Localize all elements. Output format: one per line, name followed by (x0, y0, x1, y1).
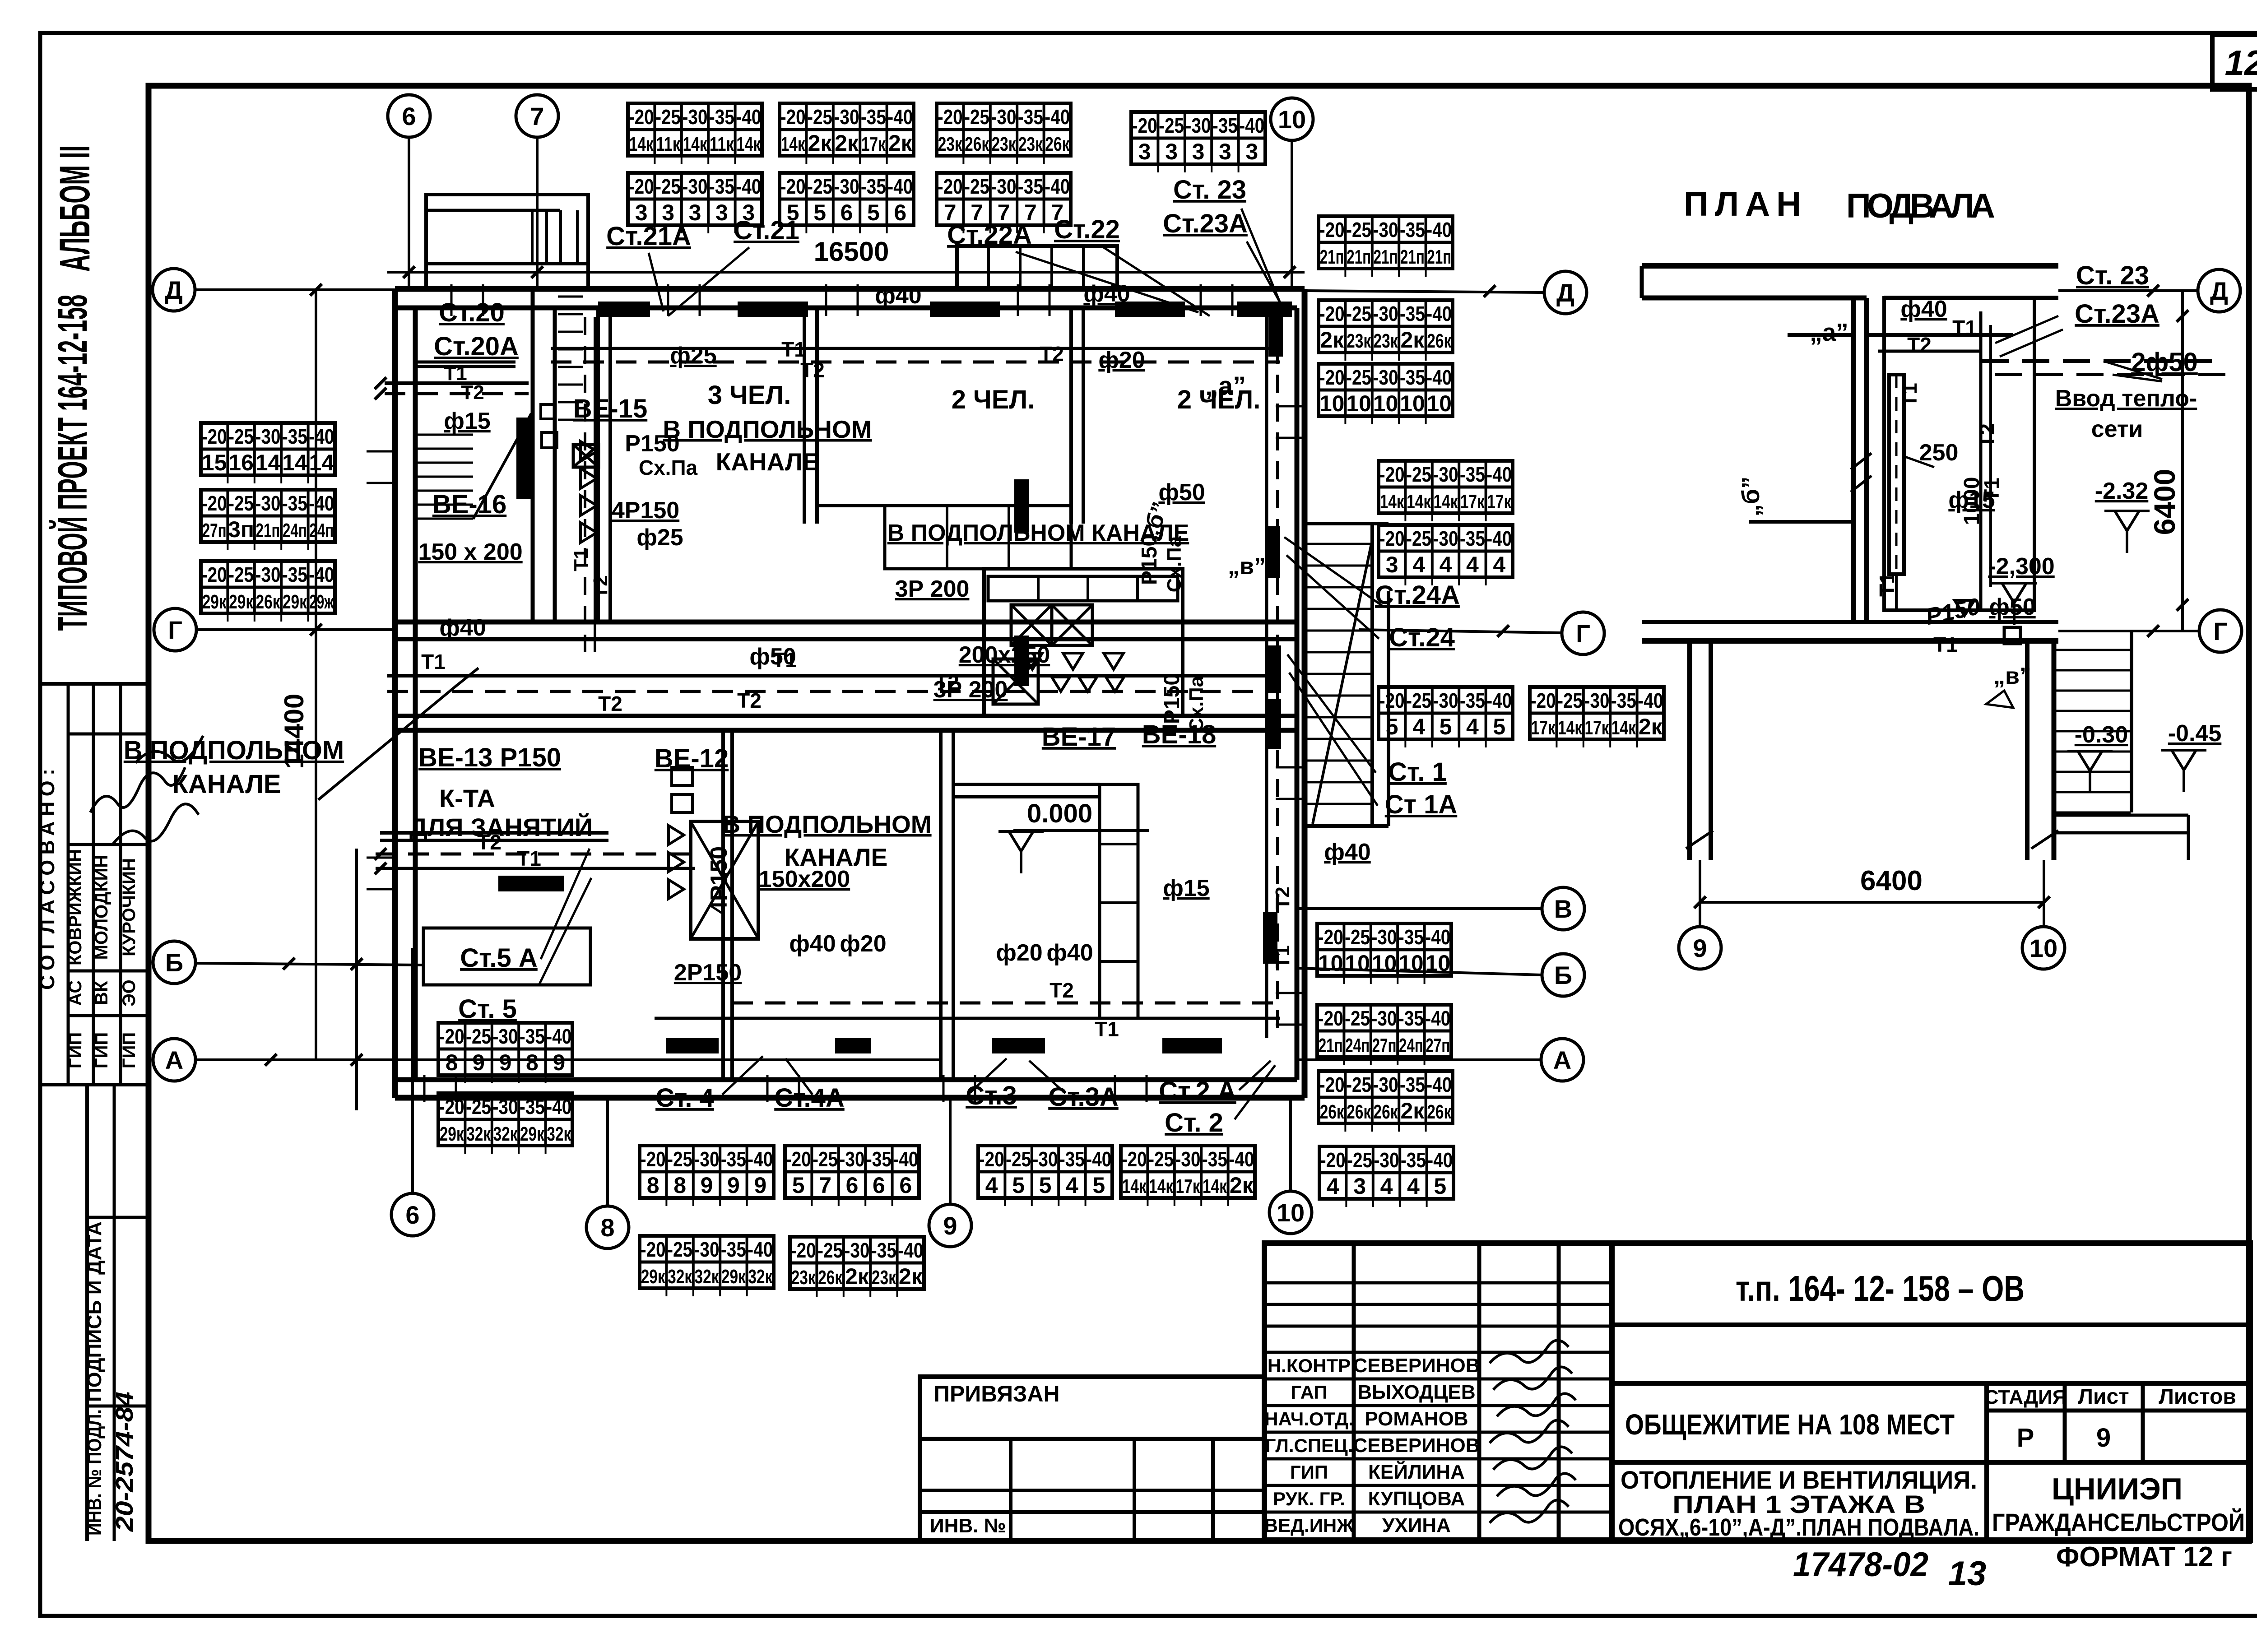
riser load table 14 at (3389,1522) (1530, 687, 1664, 747)
svg-text:9: 9 (1693, 934, 1707, 962)
wall: plan top exterior (axis Д) (395, 286, 1305, 292)
svg-text:10: 10 (1318, 951, 1343, 976)
svg-text:11к: 11к (710, 133, 734, 155)
svg-text:6: 6 (405, 1201, 419, 1229)
svg-text:3: 3 (1138, 139, 1151, 164)
svg-text:29к: 29к (202, 591, 227, 613)
svg-text:Т2: Т2 (590, 575, 612, 598)
svg-text:Ст.20: Ст.20 (439, 298, 505, 327)
svg-text:ПОДПИСЬ И ДАТА: ПОДПИСЬ И ДАТА (84, 1221, 106, 1402)
svg-text:ВЕД.ИНЖ: ВЕД.ИНЖ (1264, 1515, 1354, 1536)
window tick marks bottom wall (424, 1075, 1147, 1102)
svg-text:Т2: Т2 (1040, 342, 1064, 366)
svg-text:Ст. 5: Ст. 5 (458, 994, 517, 1024)
svg-text:9: 9 (727, 1173, 740, 1198)
svg-text:4: 4 (1412, 714, 1425, 739)
svg-text:Т1: Т1 (1933, 633, 1958, 656)
svg-text:8: 8 (600, 1213, 614, 1242)
svg-text:4: 4 (1412, 552, 1425, 577)
svg-text:ГИП: ГИП (92, 1032, 111, 1068)
svg-text:РУК. ГР.: РУК. ГР. (1273, 1488, 1345, 1509)
svg-text:„в”: „в” (1993, 663, 2031, 689)
svg-text:9: 9 (499, 1050, 512, 1075)
svg-text:ТИПОВОЙ ПРОЕКТ 164-12-158: ТИПОВОЙ ПРОЕКТ 164-12-158 (49, 295, 96, 631)
svg-text:17478-02: 17478-02 (1793, 1545, 1928, 1584)
title block left part: Привязан box (920, 1377, 1264, 1439)
svg-text:150х200: 150х200 (759, 866, 850, 892)
riser bars (black, vertical) (516, 418, 531, 499)
svg-text:сети: сети (2091, 416, 2143, 442)
svg-text:10: 10 (1400, 391, 1425, 416)
svg-text:ГЛ.СПЕЦ.: ГЛ.СПЕЦ. (1265, 1435, 1353, 1456)
svg-text:Т1: Т1 (570, 548, 592, 571)
svg-text:14к: 14к (1149, 1175, 1174, 1197)
riser load table 6 at (2075,383) (937, 173, 1071, 233)
svg-text:24п: 24п (1399, 1035, 1423, 1057)
wall: inner horizontal under 2чел rooms with closets (817, 504, 1071, 507)
svg-text:5: 5 (1092, 1173, 1105, 1198)
svg-text:29к: 29к (641, 1266, 666, 1288)
svg-text:4Р150: 4Р150 (612, 497, 679, 524)
svg-text:МОЛОДКИН: МОЛОДКИН (92, 855, 111, 960)
svg-text:6: 6 (899, 1173, 912, 1198)
svg-text:32к: 32к (493, 1123, 518, 1145)
svg-text:32к: 32к (668, 1266, 692, 1288)
svg-text:Ст.2 А: Ст.2 А (1159, 1077, 1236, 1106)
axis circle 6 (bottom) (391, 1193, 434, 1236)
svg-text:10: 10 (1319, 391, 1345, 416)
svg-text:Ст.21А: Ст.21А (606, 222, 691, 251)
svg-text:250: 250 (1919, 440, 1959, 466)
svg-text:32к: 32к (547, 1123, 571, 1145)
basement vertical dim 6400 (2181, 291, 2184, 631)
svg-text:Т2: Т2 (1975, 423, 1999, 448)
svg-text:3 ЧЕЛ.: 3 ЧЕЛ. (708, 381, 791, 410)
svg-text:14к: 14к (683, 133, 708, 155)
svg-text:АЛЬБОМ II: АЛЬБОМ II (51, 145, 99, 272)
svg-text:ВЕ-17: ВЕ-17 (1042, 722, 1116, 752)
title block outer box (1264, 1243, 2250, 1540)
svg-text:3п: 3п (228, 517, 254, 542)
pipe stub left top (Т1/Т2/ф15) (385, 381, 529, 385)
svg-text:3: 3 (715, 200, 728, 225)
svg-text:ВЕ-15: ВЕ-15 (573, 394, 647, 423)
svg-text:ф20: ф20 (840, 931, 886, 957)
svg-text:ОБЩЕЖИТИЕ НА 108 МЕСТ: ОБЩЕЖИТИЕ НА 108 МЕСТ (1625, 1408, 1955, 1441)
svg-text:Сх.Па: Сх.Па (1163, 536, 1185, 592)
svg-text:Т1: Т1 (772, 648, 797, 672)
stairwell hatch (left stair flights) (418, 435, 473, 519)
svg-text:КОВРИЖКИН: КОВРИЖКИН (65, 849, 85, 965)
sidebar bottom table grid (85, 1085, 89, 1541)
svg-text:Ст. 2: Ст. 2 (1165, 1108, 1223, 1137)
title block column lines (name table) (1352, 1243, 1356, 1540)
svg-text:В ПОДПОЛЬНОМ: В ПОДПОЛЬНОМ (663, 415, 872, 443)
svg-text:32к: 32к (748, 1266, 773, 1288)
svg-text:7: 7 (530, 102, 544, 130)
svg-text:9: 9 (472, 1050, 485, 1075)
svg-text:10: 10 (2029, 934, 2057, 962)
svg-text:„а”: „а” (1810, 318, 1848, 346)
svg-text:-2.32: -2.32 (2095, 478, 2149, 504)
svg-text:ф20: ф20 (1098, 347, 1145, 373)
axis circle 9 (bottom) (929, 1204, 971, 1247)
entry porch top-left (426, 195, 588, 264)
svg-text:ф25: ф25 (670, 343, 716, 369)
svg-text:8: 8 (673, 1173, 686, 1198)
svg-text:4: 4 (1066, 1173, 1078, 1198)
wall: basement lower-right (2025, 641, 2029, 860)
svg-text:14к: 14к (1122, 1175, 1147, 1197)
svg-text:21п: 21п (256, 520, 280, 542)
riser load table 11 at (3054,1021) (1379, 461, 1513, 521)
wall: lower-left room north (380, 831, 608, 835)
svg-text:А: А (1553, 1046, 1571, 1074)
svg-text:Т2: Т2 (1050, 979, 1074, 1002)
svg-text:Ст 1А: Ст 1А (1385, 790, 1458, 819)
basement stairs (2130, 630, 2133, 812)
svg-text:17к: 17к (1531, 717, 1556, 739)
svg-text:11к: 11к (656, 133, 681, 155)
svg-text:Т2: Т2 (477, 831, 502, 854)
svg-text:6: 6 (402, 102, 416, 130)
axis circle 9 (basement) (1679, 927, 1721, 969)
svg-text:27п: 27п (202, 520, 227, 542)
svg-text:5: 5 (813, 200, 826, 225)
svg-text:13: 13 (1948, 1555, 1987, 1593)
svg-text:ВЕ-12: ВЕ-12 (655, 744, 729, 773)
partition: lower rooms K-та/3чел (721, 730, 725, 1080)
svg-text:А: А (165, 1046, 183, 1074)
svg-text:14: 14 (282, 450, 307, 475)
partition: rooms 2чел/2чел (1069, 308, 1073, 524)
svg-text:26к: 26к (256, 591, 281, 613)
svg-text:Ст. 23: Ст. 23 (2076, 261, 2149, 290)
svg-text:27п: 27п (1372, 1035, 1397, 1057)
svg-text:14к: 14к (1558, 717, 1583, 739)
axis circle 10 (top) (1271, 98, 1313, 140)
title block doc number т.п.164-12-158-ОВ (1612, 1323, 2250, 1327)
svg-text:Т1: Т1 (1875, 572, 1899, 597)
closet wall lower (1100, 784, 1138, 1018)
svg-text:ЭО: ЭО (119, 979, 139, 1007)
wall: basement top (axis Д) (1642, 263, 2058, 269)
svg-text:17к: 17к (1460, 491, 1485, 513)
basement pipes (1867, 333, 2013, 337)
svg-text:АС: АС (65, 980, 85, 1006)
svg-text:16500: 16500 (814, 237, 889, 267)
svg-text:-0.30: -0.30 (2075, 722, 2128, 748)
svg-text:Ст.5 А: Ст.5 А (460, 943, 538, 973)
svg-text:Сх.Па: Сх.Па (639, 456, 698, 479)
radiator: left lower room (498, 876, 564, 891)
svg-text:ф40: ф40 (439, 615, 486, 641)
svg-text:2к: 2к (1400, 327, 1425, 353)
svg-text:В: В (1554, 895, 1572, 923)
riser load table 3 at (1727,229) (780, 103, 914, 164)
svg-text:Т1: Т1 (517, 847, 541, 870)
riser load table 20 at (2921,2373) (1319, 1071, 1453, 1132)
svg-text:4: 4 (1466, 552, 1479, 577)
basement room outline (1884, 298, 2034, 610)
svg-text:Ст.23А: Ст.23А (2075, 299, 2159, 329)
riser load table 21 at (2923,2540) (1319, 1146, 1454, 1207)
riser load table 25 at (1739,2538) (785, 1146, 919, 1206)
svg-text:Д: Д (2210, 277, 2228, 305)
dimension 14400 (left, vertical) (315, 290, 317, 1060)
svg-text:15: 15 (202, 450, 227, 475)
svg-text:32к: 32к (695, 1266, 720, 1288)
svg-text:ф40: ф40 (1324, 839, 1370, 865)
svg-text:23к: 23к (1374, 330, 1398, 352)
svg-text:Ст.23А: Ст.23А (1163, 209, 1248, 238)
svg-text:Т1: Т1 (1898, 383, 1921, 407)
svg-text:Ст.4А: Ст.4А (774, 1083, 844, 1113)
svg-text:6: 6 (841, 200, 853, 225)
svg-text:Т2: Т2 (1907, 333, 1932, 357)
svg-text:4Р150: 4Р150 (706, 846, 732, 914)
pipe T1 bottom rooms (655, 1017, 1280, 1020)
svg-text:ф40: ф40 (1046, 940, 1093, 966)
svg-text:-0.45: -0.45 (2168, 720, 2222, 747)
riser load table 22 at (971,2266) (438, 1023, 572, 1083)
svg-text:20-2574-84: 20-2574-84 (111, 1392, 138, 1532)
axis circle Б (right of plan) (1542, 954, 1584, 996)
leader lines bottom risers (722, 1056, 1275, 1119)
svg-text:Б: Б (165, 948, 183, 977)
svg-text:Т2: Т2 (800, 358, 825, 382)
svg-text:3: 3 (1245, 139, 1258, 164)
svg-text:„в”: „в” (1228, 553, 1266, 580)
riser load table 16 at (445,1085) (201, 490, 335, 550)
svg-text:ПОДВАЛА: ПОДВАЛА (1846, 187, 1995, 225)
svg-text:Д: Д (1556, 278, 1574, 307)
riser load table 12 at (3054,1163) (1379, 525, 1513, 585)
svg-text:4: 4 (1466, 714, 1479, 739)
svg-text:Т1: Т1 (1272, 945, 1294, 968)
svg-text:Ст. 1: Ст. 1 (1388, 757, 1447, 787)
vent unit 4Р150 cluster (lower left) (691, 821, 758, 939)
svg-text:2к: 2к (845, 1264, 869, 1289)
title block stage/sheet columns (1984, 1383, 1989, 1540)
svg-text:26к: 26к (1427, 330, 1452, 352)
svg-text:9: 9 (553, 1050, 565, 1075)
svg-text:ФОРМАТ 12 г: ФОРМАТ 12 г (2056, 1541, 2232, 1573)
svg-text:23к: 23к (872, 1267, 896, 1289)
svg-text:„б”: „б” (1737, 477, 1765, 517)
partition: lower rooms 3чел/2чел (939, 730, 943, 1080)
svg-text:2к: 2к (835, 130, 859, 156)
wall: basement lower-left (1687, 641, 1692, 860)
basement valve square (2004, 627, 2020, 644)
svg-text:4: 4 (1380, 1174, 1393, 1199)
pipe T1 corridor (387, 674, 1280, 678)
riser load table 17 at (445,1243) (201, 561, 335, 622)
witness line x=790 (355, 849, 358, 1110)
svg-text:4: 4 (1493, 552, 1505, 577)
leaders Ст.23 to risers (1241, 209, 1287, 316)
svg-text:Т1: Т1 (1952, 316, 1977, 339)
pipe T2 corridor (dashed) (387, 690, 1280, 693)
riser load table 10 at (2921,806) (1319, 364, 1453, 424)
wall: lower room top (2чел 0.000) (953, 783, 1100, 786)
svg-text:ВЕ-13 Р150: ВЕ-13 Р150 (418, 743, 561, 772)
svg-text:2к: 2к (808, 130, 832, 156)
wall: stairwell right side (531, 289, 535, 622)
svg-text:5: 5 (792, 1173, 805, 1198)
svg-text:5: 5 (1012, 1173, 1025, 1198)
svg-text:К-ТА: К-ТА (439, 784, 495, 812)
vent crosses (1011, 605, 1052, 645)
svg-text:т.п. 164- 12- 158 – ОВ: т.п. 164- 12- 158 – ОВ (1736, 1268, 2025, 1309)
svg-text:ф20: ф20 (996, 940, 1042, 966)
svg-text:2Р150: 2Р150 (674, 960, 742, 986)
svg-text:21п: 21п (1400, 246, 1425, 268)
svg-text:200х250: 200х250 (959, 642, 1050, 668)
svg-text:6: 6 (894, 200, 906, 225)
svg-text:Р: Р (2017, 1423, 2034, 1452)
svg-text:14к: 14к (1434, 491, 1458, 513)
axis circle Г (basement right) (2058, 630, 2199, 632)
radiators: top wall (598, 302, 650, 317)
svg-text:„а”: „а” (1205, 371, 1246, 401)
window tick marks left/right walls (367, 406, 1302, 1025)
svg-text:24п: 24п (283, 520, 307, 542)
svg-text:Д: Д (165, 276, 183, 304)
svg-text:ф40: ф40 (875, 283, 921, 309)
leader lines to Ст.21/22 risers (649, 247, 749, 316)
leader lines Ст.24/Ст.1 (1284, 537, 1382, 806)
title block left part lower grid (920, 1439, 1264, 1540)
wall: vestibule partition (596, 308, 600, 622)
svg-text:ф15: ф15 (1163, 875, 1209, 901)
svg-text:Г: Г (1576, 619, 1590, 648)
sidebar approval table grid (67, 684, 70, 1085)
svg-text:6: 6 (846, 1173, 859, 1198)
wall: basement Г (1642, 620, 2058, 624)
svg-text:ф50: ф50 (1158, 479, 1205, 506)
pipe T1 top rooms (551, 347, 1280, 350)
svg-text:29ж: 29ж (309, 591, 334, 613)
pipe risers left vestibule (vertical dashed) (584, 317, 586, 652)
svg-text:21п: 21п (1374, 246, 1398, 268)
svg-text:4: 4 (985, 1173, 998, 1198)
svg-text:ГИП: ГИП (119, 1032, 139, 1068)
svg-text:ГАП: ГАП (1291, 1382, 1327, 1403)
svg-text:ф40: ф40 (789, 931, 836, 957)
svg-text:2к: 2к (1639, 714, 1663, 739)
svg-text:21п: 21п (1427, 246, 1451, 268)
riser load table 13 at (3054,1522) (1379, 687, 1513, 747)
axis circle Д (left) (153, 269, 195, 311)
svg-text:17к: 17к (1176, 1175, 1201, 1197)
vent unit ВЕ-15/ВЕ-16 cluster (541, 404, 555, 419)
axis circle Б (left) (153, 941, 195, 984)
svg-text:14: 14 (309, 450, 334, 475)
basement dim 6400 bottom (1699, 860, 1701, 926)
svg-text:0.000: 0.000 (1027, 799, 1092, 828)
svg-text:26к: 26к (1045, 133, 1070, 155)
svg-text:17к: 17к (1585, 717, 1610, 739)
svg-text:26к: 26к (1374, 1101, 1398, 1123)
svg-text:10: 10 (1277, 1198, 1305, 1227)
svg-text:Ввод тепло-: Ввод тепло- (2055, 385, 2197, 412)
window tick marks top wall (451, 284, 1232, 316)
svg-text:Листов: Листов (2159, 1385, 2236, 1409)
title block band line (1612, 1381, 2250, 1386)
svg-text:6: 6 (873, 1173, 885, 1198)
sidebar divider line (40, 682, 149, 686)
svg-text:ВК: ВК (92, 981, 111, 1005)
svg-text:2к: 2к (1230, 1173, 1254, 1198)
riser load table 2 at (1391,383) (628, 173, 762, 233)
svg-text:ф25: ф25 (636, 524, 683, 551)
svg-text:14к: 14к (629, 133, 654, 155)
svg-text:14к: 14к (1611, 717, 1636, 739)
vestibule stair hatch (558, 297, 583, 420)
riser load table 5 at (2075,229) (937, 103, 1071, 164)
axis circle В (right of plan) (1542, 887, 1584, 930)
axis circle А (right of plan) (1541, 1039, 1584, 1081)
riser load table 26 at (2167,2538) (978, 1146, 1112, 1206)
svg-text:СТАДИЯ: СТАДИЯ (1984, 1386, 2067, 1408)
svg-text:23к: 23к (938, 133, 963, 155)
svg-text:9: 9 (943, 1211, 957, 1240)
svg-text:Т2: Т2 (737, 689, 762, 712)
svg-text:ф50: ф50 (1989, 594, 2035, 620)
svg-text:6400: 6400 (1860, 865, 1923, 896)
svg-text:НАЧ.ОТД.: НАЧ.ОТД. (1264, 1408, 1354, 1429)
svg-text:5: 5 (1493, 714, 1505, 739)
svg-text:5: 5 (867, 200, 880, 225)
svg-text:6400: 6400 (2148, 469, 2181, 535)
wall: plan right exterior (1295, 308, 1300, 1080)
stair block right (axis 10) (1305, 522, 1389, 525)
svg-text:5: 5 (1440, 714, 1452, 739)
svg-text:2к: 2к (888, 130, 913, 156)
svg-text:Т1: Т1 (781, 338, 806, 361)
svg-text:КУРОЧКИН: КУРОЧКИН (119, 858, 139, 956)
svg-text:Т1: Т1 (1980, 478, 2003, 502)
svg-text:26к: 26к (1320, 1101, 1345, 1123)
basement heating column 250 (1889, 375, 1904, 574)
svg-text:14: 14 (255, 450, 281, 475)
svg-text:В ПОДПОЛЬНОМ: В ПОДПОЛЬНОМ (124, 736, 344, 765)
axis circle 10 (bottom) (1269, 1191, 1312, 1234)
pipe risers right wall (vertical) (1265, 317, 1268, 1038)
svg-text:2 ЧЕЛ.: 2 ЧЕЛ. (952, 385, 1035, 414)
svg-text:Т2: Т2 (461, 381, 484, 404)
svg-text:СЕВЕРИНОВ: СЕВЕРИНОВ (1353, 1355, 1480, 1377)
entry porch top-centre (957, 246, 1117, 289)
svg-text:РОМАНОВ: РОМАНОВ (1365, 1408, 1468, 1430)
wall: corridor upper (axis Г) (395, 620, 1297, 625)
svg-text:-2,300: -2,300 (1988, 553, 2054, 580)
svg-text:ИНВ. № ПОДЛ.: ИНВ. № ПОДЛ. (84, 1409, 106, 1536)
svg-text:Сх.Па: Сх.Па (1185, 676, 1207, 732)
axis circle 10 (basement) (2022, 927, 2065, 969)
svg-text:ф15: ф15 (444, 408, 490, 434)
svg-text:2к: 2к (899, 1264, 923, 1289)
svg-text:150 х 200: 150 х 200 (418, 539, 522, 565)
svg-text:23к: 23к (791, 1267, 816, 1289)
svg-text:Ст.24: Ст.24 (1389, 623, 1455, 652)
pipe T2 top rooms (dashed) (551, 361, 1280, 364)
title block name rows (1264, 1378, 1612, 1381)
svg-text:Г: Г (168, 616, 182, 644)
svg-text:9: 9 (2096, 1423, 2111, 1452)
svg-text:23к: 23к (992, 133, 1017, 155)
